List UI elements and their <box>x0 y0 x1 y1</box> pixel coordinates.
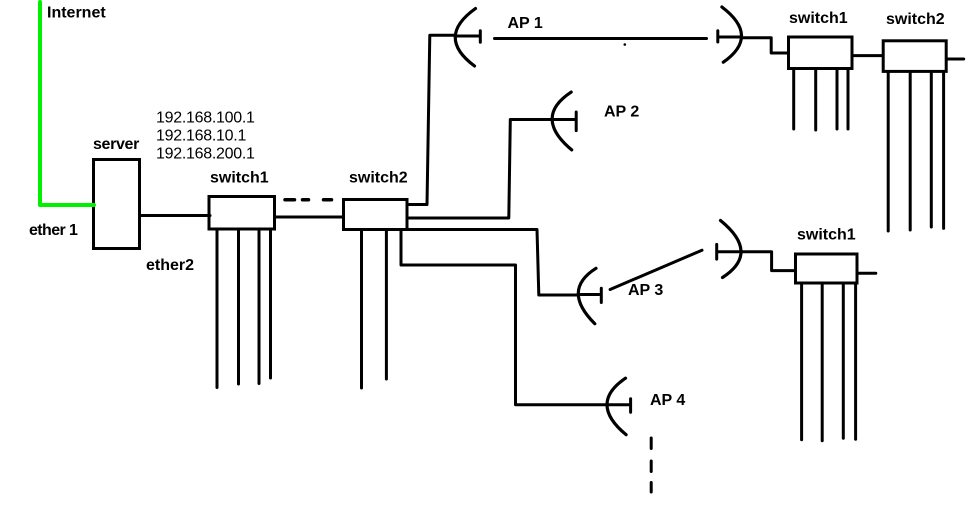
AP2 feed bar <box>575 112 578 131</box>
switch1 box (mid-right) <box>796 254 858 283</box>
cable 3 below switch1 (mid-right) <box>842 285 845 439</box>
cable 1 below switch1 (top-right) <box>792 70 795 129</box>
svg-text:Internet: Internet <box>47 5 106 22</box>
svg-text:switch1: switch1 <box>797 227 856 244</box>
mid-right feed bar <box>715 244 718 259</box>
svg-text:AP 1: AP 1 <box>508 15 543 32</box>
antenna AP1 (parabolic dish, opens right) <box>455 9 475 67</box>
svg-text:ether 1: ether 1 <box>29 222 78 239</box>
wire antenna to switch1 (mid-right) <box>742 252 796 271</box>
AP4 feed line <box>607 403 629 406</box>
svg-text:AP 2: AP 2 <box>604 103 639 120</box>
dot on AP1 link <box>624 43 627 46</box>
cable 3 below switch1 (top-right) <box>836 70 839 129</box>
switch2 box (main) <box>344 200 408 230</box>
cable 2 below switch2 (top-right) <box>909 73 912 230</box>
cable 2 below switch1 (mid-right) <box>821 285 824 441</box>
AP3 feed line <box>578 293 599 296</box>
svg-text:switch1: switch1 <box>789 10 848 27</box>
switch2 box (top-right) <box>883 41 946 72</box>
antenna AP4 (opens right) <box>607 378 626 435</box>
svg-text:ether2: ether2 <box>146 257 194 274</box>
svg-text:AP 4: AP 4 <box>650 392 685 409</box>
wire switch2 to AP3 <box>409 230 578 296</box>
svg-text:192.168.200.1: 192.168.200.1 <box>156 146 255 163</box>
cable 4 below switch1 (mid-right) <box>854 285 857 440</box>
svg-text:server: server <box>93 136 139 153</box>
mid-right feed line <box>718 250 741 253</box>
dashed drop below AP4 <box>650 438 653 492</box>
AP1 feed line <box>455 35 479 38</box>
cable 2 below switch2 (main) <box>385 231 388 379</box>
cable 1 below switch1 (main) <box>216 231 219 388</box>
wire switch2 to AP1 antenna <box>409 35 456 204</box>
cable 1 below switch2 (main) <box>360 231 363 388</box>
wireless link AP3 (diagonal) <box>610 250 702 289</box>
server box <box>94 160 140 249</box>
wire switch1 to switch2 <box>276 216 343 219</box>
antenna AP3 (opens right) <box>578 268 596 323</box>
wire: Internet uplink (green) <box>40 2 94 205</box>
cable 4 below switch2 (top-right) <box>942 73 945 229</box>
svg-text:switch2: switch2 <box>349 169 408 186</box>
antenna top-right (opens left) <box>722 7 742 62</box>
svg-text:switch1: switch1 <box>210 169 269 186</box>
cable 2 below switch1 (main) <box>237 231 240 385</box>
antenna mid-right (opens left) <box>721 221 742 278</box>
stub right of switch1 (mid-right) <box>859 272 876 275</box>
top-right feed line <box>718 36 741 39</box>
svg-text:192.168.100.1: 192.168.100.1 <box>156 110 255 127</box>
svg-text:192.168.10.1: 192.168.10.1 <box>156 128 246 145</box>
AP3 feed bar <box>600 288 603 302</box>
switch1 box (top-right) <box>789 37 853 69</box>
wire switch2 to AP4 <box>401 231 607 405</box>
stub right of switch2 (top-right) <box>948 58 964 61</box>
dashed link switch1-switch2 <box>285 198 332 202</box>
switch1 box (main) <box>209 197 275 230</box>
wireless link AP1 (long line) <box>495 37 707 40</box>
AP1 feed bar <box>479 31 482 42</box>
cable 2 below switch1 (top-right) <box>814 70 817 130</box>
cable 1 below switch1 (mid-right) <box>800 285 803 440</box>
wire antenna to switch1 (top-right) <box>742 38 789 53</box>
wire switch2 to AP2 <box>409 120 552 219</box>
cable 3 below switch2 (top-right) <box>930 73 933 227</box>
AP2 feed line <box>552 118 575 121</box>
cable 3 below switch1 (main) <box>258 231 261 384</box>
cable 4 below switch1 (main) <box>269 231 272 379</box>
AP4 feed bar <box>629 399 632 413</box>
top-right feed bar <box>716 31 719 42</box>
wire switch1 to switch2 (top-right) <box>854 54 883 57</box>
wire server to switch1 <box>141 214 210 217</box>
svg-text:AP 3: AP 3 <box>628 282 663 299</box>
svg-text:switch2: switch2 <box>886 11 945 28</box>
antenna AP2 (opens right) <box>552 92 572 150</box>
cable 1 below switch2 (top-right) <box>887 73 890 231</box>
cable 4 below switch1 (top-right) <box>847 70 850 129</box>
